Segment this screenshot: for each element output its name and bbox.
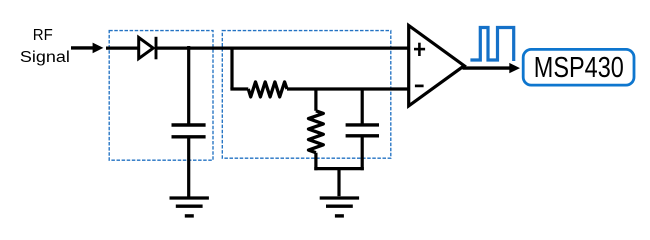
svg-text:Signal: Signal [20, 49, 70, 66]
MSP430 block [523, 49, 634, 85]
wire capacitor C1 bottom to ground [187, 137, 190, 197]
wire comparator output arrow to MSP430 [463, 63, 521, 73]
wire resistor R2 bottom [314, 153, 317, 171]
wire node to capacitor C1 top [187, 46, 190, 125]
ground GND2 [320, 198, 359, 216]
square wave signal symbol [470, 28, 513, 62]
wire node to resistor R2 top [314, 88, 317, 111]
dashed box envelope detector (D1, C1) [109, 31, 213, 161]
svg-text:MSP430: MSP430 [534, 52, 624, 84]
svg-text:RF: RF [33, 27, 53, 44]
op-amp comparator U1 [409, 26, 465, 106]
capacitor C2 [346, 125, 379, 136]
wire joining R2 and C2 bottoms [314, 167, 364, 170]
capacitor C1 [172, 125, 206, 137]
wire stub down to ground GND2 [337, 169, 340, 197]
wire diode cathode to comparator plus input [156, 46, 410, 49]
wire node to capacitor C2 top [361, 88, 364, 125]
wire capacitor C2 bottom [361, 136, 364, 170]
wire input node to diode anode [106, 46, 139, 49]
resistor R2 (shunt, vertical zigzag) [309, 111, 324, 153]
diode D1 [139, 37, 156, 60]
node RF Signal input label [20, 27, 70, 66]
dashed box RC filter (R1, R2, C2) [222, 31, 390, 159]
resistor R1 (series, horizontal zigzag) [248, 82, 287, 97]
wire resistor R1 to comparator minus input [287, 87, 410, 90]
ground GND1 [170, 198, 209, 216]
wire input arrow from RF Signal [71, 43, 103, 54]
wire branch down from top node to resistor R1 [230, 47, 248, 90]
